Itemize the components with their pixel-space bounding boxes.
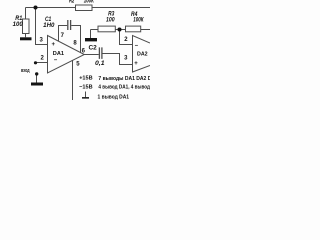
svg-text:DA1: DA1 (53, 51, 65, 57)
svg-text:+: + (51, 42, 55, 48)
svg-text:100К: 100К (133, 18, 144, 24)
svg-text:0,1: 0,1 (95, 61, 105, 67)
svg-text:–: – (54, 58, 58, 64)
svg-text:–: – (135, 43, 139, 49)
svg-text:+15В: +15В (79, 76, 92, 82)
svg-text:100: 100 (106, 17, 115, 23)
svg-text:8: 8 (73, 40, 77, 46)
svg-text:C2: C2 (89, 45, 98, 52)
svg-text:3: 3 (40, 38, 44, 44)
svg-text:2: 2 (124, 37, 128, 43)
svg-text:6: 6 (82, 48, 86, 54)
svg-text:вход: вход (21, 68, 30, 74)
svg-text:7: 7 (61, 33, 65, 39)
svg-text:−15В: −15В (79, 85, 92, 91)
svg-text:DA2: DA2 (137, 52, 148, 58)
svg-text:7 выводы DA1 DA2 D: 7 выводы DA1 DA2 D (98, 76, 150, 82)
svg-text:1 вывод DA1: 1 вывод DA1 (98, 94, 130, 100)
svg-text:100: 100 (13, 22, 24, 28)
svg-text:+: + (134, 61, 138, 67)
svg-text:4 вывод DA1, 4 вывод: 4 вывод DA1, 4 вывод (98, 85, 150, 91)
svg-text:5: 5 (76, 61, 80, 67)
svg-text:1Н0: 1Н0 (43, 23, 55, 29)
svg-text:C1: C1 (45, 17, 52, 23)
svg-text:3: 3 (124, 56, 128, 62)
svg-text:R2: R2 (69, 0, 75, 5)
svg-text:100К: 100К (84, 0, 95, 5)
svg-text:2: 2 (41, 55, 45, 61)
